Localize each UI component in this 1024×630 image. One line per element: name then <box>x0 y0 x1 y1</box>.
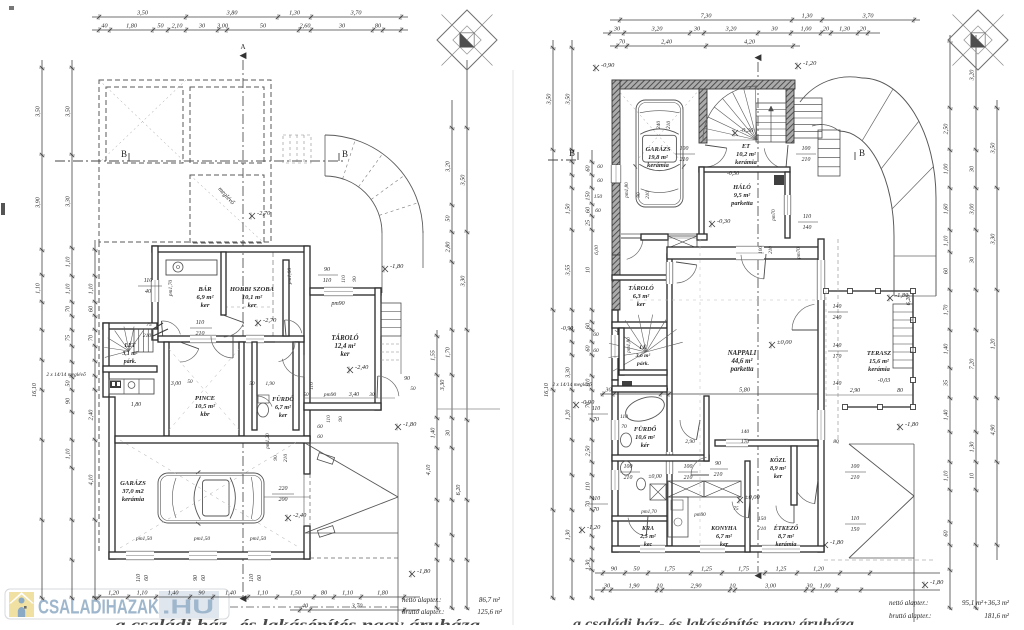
logo: house gable white triangle <box>9 592 34 604</box>
left plan: left dimension chain inner <box>69 60 75 600</box>
svg-text:30: 30 <box>613 26 621 33</box>
svg-text:70: 70 <box>619 39 626 46</box>
logo: house window circle <box>19 598 25 604</box>
svg-text:150: 150 <box>851 527 860 533</box>
svg-text:210: 210 <box>802 157 811 163</box>
svg-text:-0,30: -0,30 <box>727 171 739 177</box>
svg-text:60: 60 <box>595 208 601 214</box>
right plan: KOZL/ETKEZO wall <box>791 446 797 505</box>
svg-text:-1,20: -1,20 <box>803 60 817 67</box>
svg-text:181,6 m²: 181,6 m² <box>984 612 1010 620</box>
svg-text:3,50: 3,50 <box>990 142 997 155</box>
svg-text:1,20: 1,20 <box>990 338 997 350</box>
svg-text:37,0 m2: 37,0 m2 <box>121 488 144 495</box>
svg-text:1,30: 1,30 <box>585 559 592 571</box>
svg-text:LÉT: LÉT <box>124 341 136 349</box>
svg-text:50: 50 <box>260 23 267 30</box>
svg-text:60: 60 <box>593 332 599 338</box>
right plan: north symbol <box>948 10 1008 70</box>
chimney blocks <box>110 381 121 389</box>
svg-text:60: 60 <box>257 575 263 581</box>
right plan: hatched left wall mid <box>612 183 620 255</box>
svg-text:50: 50 <box>187 379 193 385</box>
right plan: section line A-A vertical <box>757 62 759 572</box>
svg-text:LÉ: LÉ <box>638 343 646 351</box>
svg-text:110: 110 <box>144 278 153 284</box>
svg-text:◀: ◀ <box>240 50 247 60</box>
right plan: ET right wall hatched <box>786 89 794 143</box>
right plan: chimney + meglevo <box>622 381 632 388</box>
right plan: dim row 1,90 <box>600 391 822 397</box>
PINCE floor dashed diagonals <box>169 349 239 430</box>
garage door opening right side <box>303 474 305 526</box>
svg-text:ker: ker <box>720 541 729 548</box>
right plan: terrace door wall <box>792 304 814 330</box>
right plan: wall stubs beside shaft <box>641 234 668 240</box>
svg-text:50: 50 <box>249 381 255 387</box>
left plan: ramp chevron driveway <box>305 442 398 444</box>
svg-text:3,1 m²: 3,1 m² <box>122 351 138 357</box>
svg-text:-0,90: -0,90 <box>601 62 615 69</box>
svg-text:110: 110 <box>323 278 332 284</box>
svg-text:1,70: 1,70 <box>445 346 452 358</box>
svg-text:kerámia: kerámia <box>776 541 797 548</box>
svg-text:nettó alapter.:: nettó alapter.: <box>889 599 928 607</box>
svg-text:110: 110 <box>585 481 592 491</box>
svg-text:70: 70 <box>593 507 599 513</box>
svg-text:210: 210 <box>666 121 672 130</box>
svg-text:bruttó alapter.:: bruttó alapter.: <box>889 612 931 620</box>
svg-text:125,6 m²: 125,6 m² <box>477 608 503 616</box>
svg-text:±0,00: ±0,00 <box>648 474 661 480</box>
level flag -1,80 lower right <box>409 571 415 578</box>
svg-text:3,20: 3,20 <box>651 26 664 33</box>
svg-text:HÁLÓ: HÁLÓ <box>732 183 751 191</box>
svg-text:15,6 m²: 15,6 m² <box>869 358 890 365</box>
svg-text:60: 60 <box>201 575 207 581</box>
right plan: section line B-B <box>548 159 578 161</box>
scan speck left edge <box>1 203 5 215</box>
svg-text:40: 40 <box>302 603 309 610</box>
svg-text:A: A <box>240 43 245 51</box>
svg-text:bruttó alapter.:: bruttó alapter.: <box>402 608 444 616</box>
svg-text:2,10: 2,10 <box>172 23 184 30</box>
svg-text:6,9 m²: 6,9 m² <box>197 294 215 301</box>
svg-text:50: 50 <box>65 380 72 387</box>
svg-text:90: 90 <box>636 192 642 198</box>
ET door arcs <box>707 148 727 167</box>
svg-text:140: 140 <box>741 428 750 435</box>
svg-text:30: 30 <box>770 26 778 33</box>
right plan: middle wall column <box>667 254 672 546</box>
svg-text:30: 30 <box>693 26 701 33</box>
right plan: FURDO walls <box>612 386 667 392</box>
svg-text:210: 210 <box>283 454 289 463</box>
svg-text:1,25: 1,25 <box>776 566 787 573</box>
svg-text:9,5 m²: 9,5 m² <box>734 192 752 199</box>
svg-text:3,20: 3,20 <box>445 160 452 173</box>
svg-text:150: 150 <box>758 516 767 522</box>
svg-text:1,50: 1,50 <box>565 203 572 215</box>
right plan: hatched left wall lower <box>612 255 620 310</box>
TERASZ railing posts <box>824 289 829 294</box>
svg-text:60: 60 <box>144 575 150 581</box>
svg-text:kec: kec <box>644 542 653 548</box>
svg-text:90: 90 <box>65 397 72 404</box>
left plan: bottom dimension rows <box>92 594 420 600</box>
svg-text:-0,03: -0,03 <box>878 378 891 384</box>
left plan: right wall of main block <box>304 246 310 440</box>
svg-text:TÁROLÓ: TÁROLÓ <box>331 334 358 342</box>
svg-text:3,30: 3,30 <box>460 275 467 288</box>
right plan: KONYHA/ETKEZO wall <box>745 461 750 552</box>
svg-text:210: 210 <box>624 475 633 481</box>
svg-text:110: 110 <box>803 214 811 220</box>
svg-text:100: 100 <box>758 246 764 254</box>
logo: house icon yellow square <box>9 592 34 617</box>
svg-text:ker: ker <box>279 412 288 419</box>
svg-text:210: 210 <box>714 472 723 478</box>
svg-text:8,7 m²: 8,7 m² <box>778 533 794 540</box>
svg-text:30: 30 <box>338 23 346 30</box>
roof projection dashes inside building <box>272 252 274 338</box>
right plan: ramp chevron driveway <box>849 443 914 445</box>
svg-text:nettó alapter.:: nettó alapter.: <box>402 596 441 604</box>
left plan: left dimension chain outer <box>39 60 45 600</box>
svg-text:ker: ker <box>774 473 783 480</box>
level flag -1,80 bottom right corner <box>922 582 928 589</box>
svg-text:1,10: 1,10 <box>257 590 269 597</box>
svg-text:-1,80: -1,80 <box>830 539 844 546</box>
svg-text:3,70: 3,70 <box>351 603 364 610</box>
svg-text:35: 35 <box>943 380 950 387</box>
svg-text:◀: ◀ <box>240 593 247 603</box>
svg-text:KRA: KRA <box>641 526 654 532</box>
left plan: curved driveway annulus <box>325 135 423 233</box>
svg-text:75: 75 <box>65 335 72 341</box>
svg-text:FÜRDŐ: FÜRDŐ <box>272 395 294 403</box>
right plan: FURDO fixtures <box>623 392 668 425</box>
svg-text:140: 140 <box>833 342 842 349</box>
right plan: curved driveway outer edge <box>862 78 936 296</box>
right plan: spiral stair LE <box>613 352 646 371</box>
svg-text:30: 30 <box>198 23 206 30</box>
svg-text:3,30: 3,30 <box>65 195 72 208</box>
svg-text:-0,90: -0,90 <box>581 399 595 406</box>
svg-text:ET: ET <box>741 143 751 150</box>
svg-text:pm90: pm90 <box>693 512 706 518</box>
svg-text:pm90: pm90 <box>323 392 337 398</box>
svg-text:2 x 14/14 meglévő: 2 x 14/14 meglévő <box>552 381 592 388</box>
svg-text:44,6 m²: 44,6 m² <box>731 358 754 365</box>
right plan: NAPPALI dashes <box>630 299 818 301</box>
left plan: driveway dashed entry lines <box>283 135 311 163</box>
svg-text:1,30: 1,30 <box>839 26 851 33</box>
svg-text:1,40: 1,40 <box>943 409 950 421</box>
right plan: KRA walls <box>612 516 667 521</box>
svg-text:2,50: 2,50 <box>943 123 950 135</box>
svg-text:50: 50 <box>445 215 452 222</box>
svg-text:a családi ház- és lakásépítés: a családi ház- és lakásépítés nagy áruhá… <box>115 617 480 625</box>
left plan: north symbol <box>437 10 497 70</box>
svg-text:16,10: 16,10 <box>543 382 550 397</box>
left plan: TAROLO room walls <box>310 288 381 295</box>
svg-text:50: 50 <box>410 386 416 392</box>
svg-text:pm1,50: pm1,50 <box>249 536 267 542</box>
svg-text:párk.: párk. <box>636 361 649 367</box>
left plan: outer wall left upper <box>152 246 158 340</box>
svg-text:1,00: 1,00 <box>943 163 950 175</box>
svg-text:TERASZ: TERASZ <box>867 350 891 357</box>
svg-text:2,90: 2,90 <box>691 583 703 590</box>
svg-text:110: 110 <box>326 415 332 423</box>
svg-text:pm1,00: pm1,00 <box>287 268 293 286</box>
right plan: roof dashed diagonals top <box>617 89 680 160</box>
right plan: HALO room walls <box>699 167 790 172</box>
svg-text:6,3 m²: 6,3 m² <box>633 293 651 300</box>
svg-text:90: 90 <box>198 590 205 597</box>
svg-text:-2,70: -2,70 <box>263 317 277 324</box>
TERASZ stairs <box>893 304 913 368</box>
svg-text:1,30: 1,30 <box>565 529 572 541</box>
right plan: interior doors <box>680 420 697 440</box>
left plan: FURDO walls <box>252 342 257 430</box>
svg-text:1,10: 1,10 <box>137 590 149 597</box>
svg-text:1,10: 1,10 <box>65 448 72 460</box>
right plan: right dimension chains <box>947 35 953 610</box>
svg-text:kerámia: kerámia <box>647 162 669 169</box>
svg-text:2,50: 2,50 <box>585 445 592 457</box>
svg-text:1,60: 1,60 <box>943 203 950 215</box>
svg-text:6,00: 6,00 <box>594 245 600 255</box>
svg-text:B: B <box>342 149 348 159</box>
svg-text:60: 60 <box>943 267 950 274</box>
svg-text:60: 60 <box>88 305 95 312</box>
svg-text:200: 200 <box>279 497 288 503</box>
left plan: section line A-A vertical <box>242 60 244 600</box>
svg-text:1,00: 1,00 <box>820 583 832 590</box>
right plan: entry curve near stair <box>800 77 862 102</box>
right plan: top dimension chain row 2 <box>603 30 880 36</box>
left plan: top dimension chain row 1 <box>92 14 408 20</box>
svg-text:140: 140 <box>833 380 842 387</box>
svg-text:30: 30 <box>369 392 375 398</box>
left plan: outside stair at TAROLO <box>381 303 401 336</box>
left plan: garage floor dashes <box>120 440 300 548</box>
svg-text:3,50: 3,50 <box>35 105 42 118</box>
svg-text:12,4 m²: 12,4 m² <box>335 343 357 350</box>
svg-text:90: 90 <box>404 376 410 382</box>
svg-text:50: 50 <box>633 566 640 573</box>
svg-text:ker: ker <box>637 301 646 308</box>
svg-text:8,9 m²: 8,9 m² <box>770 465 786 472</box>
right plan: ET winder stair <box>703 139 757 141</box>
svg-text:150: 150 <box>585 190 592 200</box>
svg-text:3,90: 3,90 <box>35 196 42 209</box>
svg-text:30: 30 <box>969 256 976 264</box>
window opening left wall <box>151 280 159 302</box>
left plan: FURDO fixtures <box>258 403 269 417</box>
left plan: garage car <box>158 471 264 526</box>
driveway outer edge going south <box>422 231 424 268</box>
svg-text:40: 40 <box>101 23 108 30</box>
svg-text:-0,30: -0,30 <box>717 218 731 225</box>
TERASZ dashed floor <box>825 291 827 407</box>
svg-text:2,90: 2,90 <box>685 439 695 445</box>
svg-text:1,10: 1,10 <box>65 256 72 268</box>
left plan: top dimension chain row 2 <box>92 27 408 33</box>
right plan: ET straight stair <box>756 103 786 142</box>
svg-text:1,70: 1,70 <box>943 304 950 316</box>
svg-text:140: 140 <box>833 303 842 310</box>
svg-text:1,40: 1,40 <box>943 343 950 355</box>
svg-text:2 x 14/14 meglévő: 2 x 14/14 meglévő <box>46 371 86 378</box>
svg-text:90: 90 <box>352 276 358 282</box>
logo: HU background block <box>159 591 219 618</box>
svg-text:parketta: parketta <box>730 200 753 207</box>
svg-text:90: 90 <box>273 455 279 461</box>
svg-text:80: 80 <box>833 439 839 445</box>
svg-text:NAPPALI: NAPPALI <box>727 350 757 357</box>
svg-text:80: 80 <box>321 590 328 597</box>
svg-text:19,8 m²: 19,8 m² <box>648 154 669 161</box>
svg-text:16,10: 16,10 <box>31 382 38 397</box>
svg-text:80: 80 <box>897 388 903 394</box>
svg-text:GARÁZS: GARÁZS <box>120 479 146 487</box>
svg-text:70: 70 <box>621 424 627 430</box>
svg-text:HOBBI SZOBA: HOBBI SZOBA <box>229 286 275 293</box>
svg-text:5,80: 5,80 <box>739 387 751 394</box>
left plan: outer wall top <box>152 246 308 252</box>
right plan: shaft x-box <box>668 236 697 248</box>
svg-text:30: 30 <box>805 583 813 590</box>
svg-text:1,90: 1,90 <box>629 583 641 590</box>
svg-text:110: 110 <box>136 574 142 582</box>
right plan: hatched top wall garage+ET <box>612 80 795 89</box>
svg-text:2,80: 2,80 <box>445 241 452 253</box>
window openings bottom wall <box>126 551 154 560</box>
logo: dot <box>24 606 27 609</box>
right plan: top dimension chain row 1 <box>610 17 920 23</box>
svg-text:1,50: 1,50 <box>290 590 302 597</box>
svg-text:100: 100 <box>624 464 633 470</box>
svg-text:50: 50 <box>303 392 309 398</box>
right plan: top dimension chain row 3 <box>610 43 800 49</box>
svg-text:3,00: 3,00 <box>216 23 229 30</box>
svg-text:110: 110 <box>341 275 347 283</box>
right ramp edge extends to sheet bottom <box>913 558 915 622</box>
svg-text:60: 60 <box>585 206 592 213</box>
svg-text:10: 10 <box>656 583 663 590</box>
svg-text:7,30: 7,30 <box>701 13 713 20</box>
svg-text:kerámia: kerámia <box>868 366 890 373</box>
svg-text:-1,80: -1,80 <box>403 421 417 428</box>
right plan: hatched left wall upper <box>612 80 620 165</box>
svg-text:2,60: 2,60 <box>300 23 312 30</box>
svg-text:1,90: 1,90 <box>265 381 274 387</box>
svg-text:170: 170 <box>833 354 842 360</box>
svg-text:210: 210 <box>768 246 774 254</box>
svg-text:1,80: 1,80 <box>377 590 389 597</box>
svg-text:100: 100 <box>851 464 860 470</box>
svg-text:7,20: 7,20 <box>969 358 976 370</box>
svg-text:3,70: 3,70 <box>862 13 875 20</box>
svg-text:210: 210 <box>143 333 152 339</box>
svg-text:a családi ház- és lakásépítés: a családi ház- és lakásépítés nagy áruhá… <box>573 617 854 625</box>
svg-text:TÁROLÓ: TÁROLÓ <box>628 284 654 292</box>
svg-text:B: B <box>569 148 575 158</box>
svg-text:30: 30 <box>969 165 976 173</box>
svg-text:1,00: 1,00 <box>801 26 813 33</box>
svg-text:240: 240 <box>833 314 842 321</box>
svg-text:1,10: 1,10 <box>342 590 354 597</box>
svg-text:90: 90 <box>715 461 721 467</box>
svg-text:±0,00: ±0,00 <box>745 494 760 501</box>
svg-text:1,40: 1,40 <box>168 590 180 597</box>
svg-text:60: 60 <box>317 434 323 440</box>
svg-text:pm1,50: pm1,50 <box>135 536 153 542</box>
svg-text:60: 60 <box>593 348 599 354</box>
svg-text:60: 60 <box>943 530 950 537</box>
svg-text:1,75: 1,75 <box>664 566 675 573</box>
svg-text:6,7 m²: 6,7 m² <box>275 404 291 411</box>
svg-text:3,55: 3,55 <box>565 265 572 277</box>
svg-text:10,1 m²: 10,1 m² <box>242 294 263 301</box>
svg-text:10,6 m²: 10,6 m² <box>635 434 656 441</box>
svg-text:110: 110 <box>620 414 628 420</box>
svg-text:3,00: 3,00 <box>969 203 976 216</box>
svg-text:60: 60 <box>585 345 592 352</box>
svg-text:-2,40: -2,40 <box>355 364 369 371</box>
svg-text:-1,20: -1,20 <box>587 524 601 531</box>
left plan: stair annex LET walls <box>103 323 157 329</box>
svg-text:100: 100 <box>680 146 689 152</box>
svg-text:ker: ker <box>340 351 349 358</box>
svg-text:1,55: 1,55 <box>430 350 437 361</box>
svg-text:60: 60 <box>597 178 603 184</box>
svg-text:párk.: párk. <box>123 359 136 365</box>
svg-text:210: 210 <box>680 157 689 163</box>
svg-text:10,5 m²: 10,5 m² <box>195 403 216 410</box>
right plan: KOZL walls <box>704 396 709 461</box>
svg-text:3,50: 3,50 <box>136 10 149 17</box>
svg-text:3,70: 3,70 <box>350 10 363 17</box>
svg-text:210: 210 <box>645 191 651 199</box>
right plan: left wall bath area <box>612 380 618 552</box>
svg-text:1,10: 1,10 <box>65 283 72 295</box>
left plan: doors/arcs interior <box>211 336 233 358</box>
svg-text:2,40: 2,40 <box>661 39 673 46</box>
svg-text:210: 210 <box>196 331 205 337</box>
svg-text:B: B <box>859 148 865 158</box>
right plan: dashed plot lines right <box>837 239 839 444</box>
left plan: interior wall below BAR <box>158 336 304 342</box>
driveway radial joints <box>862 89 893 141</box>
svg-text:20: 20 <box>823 26 830 33</box>
svg-text:90: 90 <box>338 416 344 422</box>
svg-text:-1,80: -1,80 <box>905 421 919 428</box>
svg-text:4,10: 4,10 <box>88 474 95 486</box>
svg-text:90: 90 <box>193 575 199 581</box>
right plan: lower external stair flight <box>818 130 840 176</box>
svg-text:3,40: 3,40 <box>348 391 359 398</box>
right plan: garage car (vertical) <box>634 100 686 207</box>
svg-text:pm1,70: pm1,70 <box>168 280 174 298</box>
right plan: left wall below <box>612 310 618 380</box>
svg-text:1,20: 1,20 <box>108 590 120 597</box>
svg-text:-1,80: -1,80 <box>417 568 431 575</box>
svg-text:1,10: 1,10 <box>35 282 42 294</box>
